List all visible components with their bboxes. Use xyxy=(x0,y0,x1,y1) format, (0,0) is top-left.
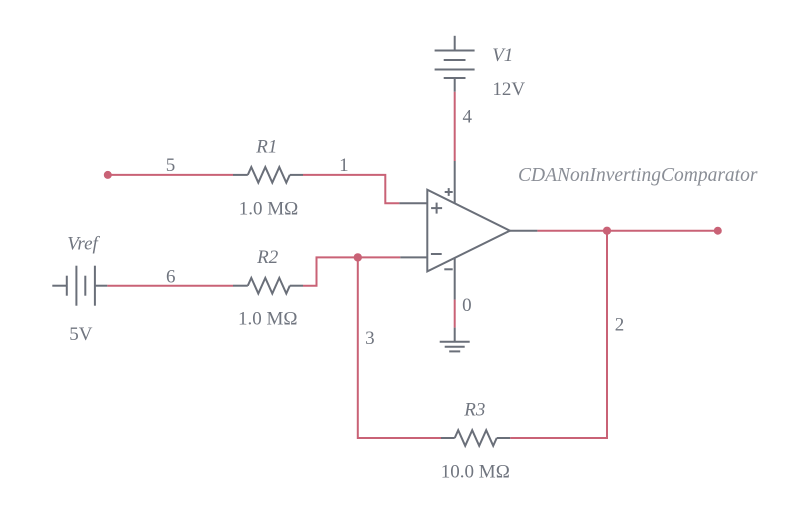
svg-text:R3: R3 xyxy=(463,399,485,420)
svg-text:10.0 MΩ: 10.0 MΩ xyxy=(441,461,510,482)
svg-text:6: 6 xyxy=(166,266,176,287)
svg-text:0: 0 xyxy=(462,295,472,316)
svg-text:1.0 MΩ: 1.0 MΩ xyxy=(239,199,299,220)
svg-text:R1: R1 xyxy=(255,137,277,158)
svg-text:1.0 MΩ: 1.0 MΩ xyxy=(238,308,298,329)
svg-text:5V: 5V xyxy=(69,324,93,345)
svg-text:V1: V1 xyxy=(492,45,513,66)
svg-text:4: 4 xyxy=(462,107,472,128)
svg-text:R2: R2 xyxy=(256,247,279,268)
svg-text:Vref: Vref xyxy=(67,234,100,255)
svg-text:3: 3 xyxy=(365,328,375,349)
svg-text:CDANonInvertingComparator: CDANonInvertingComparator xyxy=(518,165,758,186)
svg-text:5: 5 xyxy=(166,155,176,176)
svg-text:12V: 12V xyxy=(492,79,525,100)
svg-text:1: 1 xyxy=(339,155,349,176)
svg-text:2: 2 xyxy=(615,315,625,336)
